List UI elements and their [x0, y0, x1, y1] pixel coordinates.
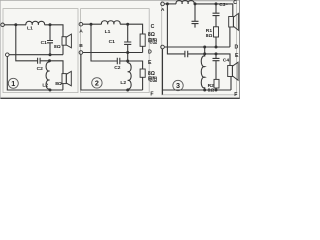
svg-text:8Ω: 8Ω [54, 44, 61, 50]
wire speaker bottom lead [229, 27, 231, 47]
wire high-pass branch [16, 25, 50, 61]
inductor L2 shunt [128, 63, 131, 90]
svg-text:L2: L2 [42, 83, 48, 89]
svg-text:E: E [148, 60, 152, 66]
wire B line [83, 52, 143, 54]
junction dots circuit 3 [166, 2, 169, 5]
inductor (series) [176, 1, 194, 4]
svg-text:C2: C2 [114, 65, 121, 71]
speaker top 8ohm [229, 13, 239, 30]
capacitor C1 shunt chain [124, 24, 131, 63]
wire [230, 77, 232, 91]
svg-text:8Ω: 8Ω [148, 32, 155, 38]
circled number 1 [8, 78, 18, 88]
wire top to corner [194, 4, 233, 17]
svg-text:F: F [150, 91, 153, 97]
junction dots circuit 1 [14, 23, 17, 26]
capacitor series on E line [185, 51, 188, 58]
resistor R1 [214, 27, 219, 37]
wire B drop and ground rail [81, 54, 143, 90]
box circuit 1 [3, 9, 78, 93]
svg-text:L2: L2 [120, 80, 126, 86]
junction dots circuit 2 [90, 23, 93, 26]
wire A branch [91, 24, 143, 69]
svg-text:3: 3 [176, 81, 180, 90]
terminal A [79, 22, 83, 26]
box circuit 2 [81, 9, 150, 93]
svg-text:C: C [151, 24, 155, 30]
wire [62, 84, 64, 90]
wire return [9, 54, 63, 56]
svg-text:D: D [148, 49, 152, 55]
terminal (bottom input) [6, 53, 10, 57]
wire A branch [167, 4, 230, 66]
resistor top 8ohm [140, 34, 145, 46]
svg-text:A: A [79, 28, 83, 34]
capacitor C3 [213, 4, 220, 27]
resistor bottom 8ohm [140, 69, 145, 77]
resistor R2 [214, 79, 219, 88]
svg-text:C2: C2 [37, 66, 44, 72]
scan frame edges [0, 0, 240, 99]
terminal A [161, 2, 165, 6]
svg-text:D: D [235, 44, 239, 50]
wire B drop and ground rail [163, 49, 232, 95]
inductor shunt [201, 47, 204, 90]
label dianzu bottom (hand drawn) [149, 76, 157, 81]
svg-text:E: E [235, 53, 239, 59]
speaker woofer 8ohm [62, 71, 71, 86]
svg-text:8Ω: 8Ω [208, 87, 215, 93]
wire [83, 23, 102, 25]
wire [45, 25, 64, 37]
label dianzu top (hand drawn) [149, 38, 157, 43]
svg-text:C1: C1 [109, 39, 116, 45]
capacitor C4 [213, 54, 220, 80]
wire [4, 24, 26, 26]
terminal B [161, 45, 165, 49]
svg-text:C4: C4 [223, 58, 230, 64]
wire ground rail [7, 57, 63, 91]
capacitor C2 [117, 58, 120, 65]
wire [120, 24, 143, 34]
circled number 2 [92, 78, 102, 88]
svg-text:B: B [79, 43, 83, 49]
inductor L2 shunt [46, 62, 49, 90]
wire [142, 77, 144, 90]
wire [215, 88, 217, 90]
wire B line [164, 46, 230, 48]
wire [164, 3, 176, 5]
circled number 3 [173, 80, 183, 90]
svg-text:F: F [234, 92, 237, 98]
svg-text:C: C [233, 0, 237, 6]
svg-text:8Ω: 8Ω [148, 71, 155, 77]
speaker tweeter 8ohm [62, 34, 71, 48]
wire [50, 61, 64, 74]
capacitor shunt (dangling) [192, 4, 199, 28]
terminal (top input) [1, 23, 5, 27]
svg-text:1: 1 [11, 79, 15, 88]
svg-text:C3: C3 [219, 2, 226, 8]
inductor L1 [101, 21, 120, 24]
capacitor C2 [38, 58, 41, 64]
svg-text:8Ω: 8Ω [206, 33, 213, 39]
svg-text:L1: L1 [27, 25, 33, 31]
wire [62, 45, 64, 55]
wire [142, 46, 144, 52]
svg-text:A: A [161, 7, 165, 13]
dot after C3 label [226, 3, 228, 5]
wire [215, 37, 217, 47]
svg-text:L1: L1 [105, 29, 111, 35]
inductor L1 [26, 21, 45, 24]
svg-text:C1: C1 [41, 40, 48, 46]
capacitor C1 [47, 25, 53, 55]
terminal B [79, 51, 83, 55]
speaker bottom 8ohm [228, 62, 238, 80]
svg-text:8Ω: 8Ω [55, 81, 62, 87]
box circuit 3 [162, 1, 237, 95]
svg-text:2: 2 [95, 79, 99, 88]
